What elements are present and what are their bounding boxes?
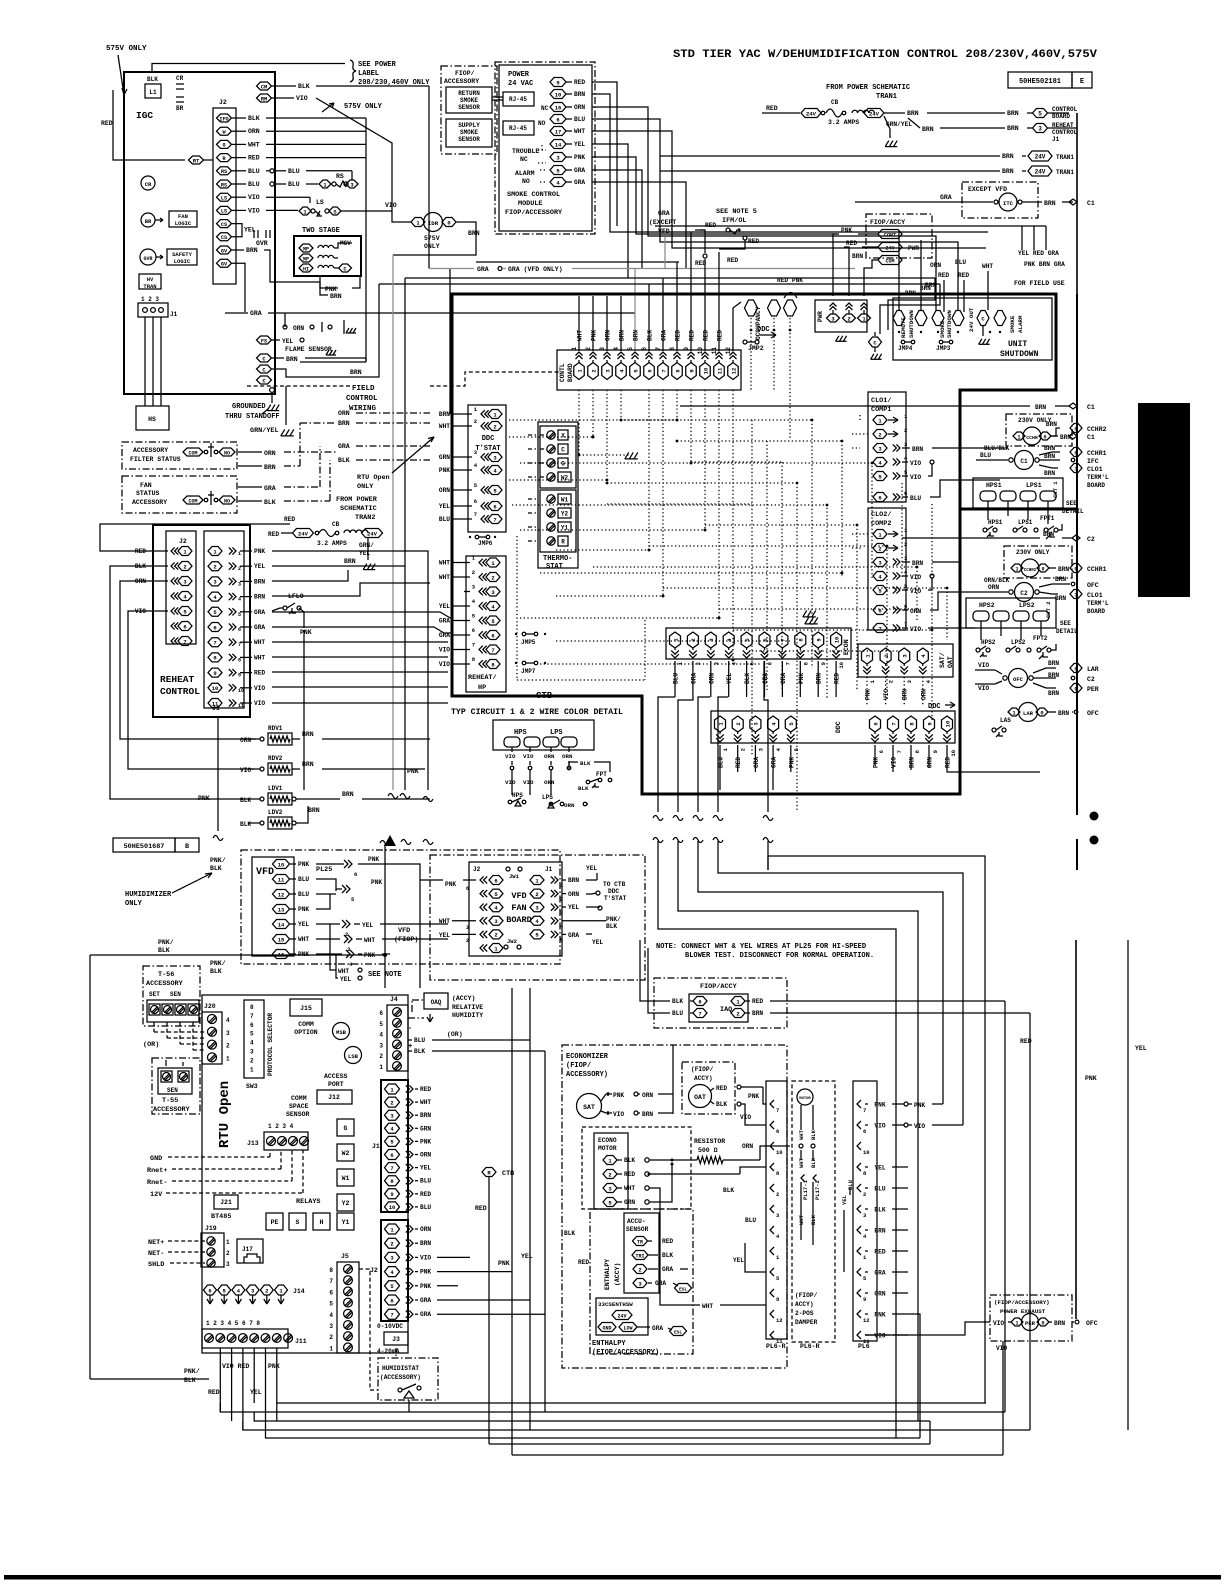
svg-text:ORN/BLK: ORN/BLK [984,577,1010,584]
VFD pin 10 [273,860,290,869]
svg-text:SMOKE: SMOKE [460,97,478,104]
svg-text:CKT 1: CKT 1 [1052,481,1059,498]
reheat J1 pin 3 [208,577,222,586]
svg-text:VIO: VIO [523,753,534,760]
connector PWR (PMR) box [815,300,867,332]
bundle wires into C pin [879,310,881,334]
svg-text:PNK: PNK [1085,1075,1097,1082]
svg-text:WHT: WHT [248,141,260,148]
svg-text:10: 10 [555,91,562,98]
long wire y=284 [379,283,940,285]
svg-text:FS: FS [261,338,267,344]
smoke shutdown pins [932,311,944,326]
svg-text:LPS: LPS [550,729,563,737]
svg-text:JMP3: JMP3 [936,345,951,352]
svg-text:BRN: BRN [912,446,923,453]
svg-text:(FIOP/: (FIOP/ [566,1062,591,1070]
svg-text:BRN: BRN [1054,1320,1065,1327]
CONTL BOARD pin 3 [602,363,613,380]
svg-text:FLAME SENSOR: FLAME SENSOR [285,346,332,353]
svg-text:VIO: VIO [914,1123,925,1130]
svg-text:IGC: IGC [136,110,153,121]
CONTL BOARD pin 7 [658,363,669,380]
svg-text:TRAN1: TRAN1 [1056,169,1074,176]
terminal L1 [145,84,161,98]
svg-text:GRN/: GRN/ [359,542,374,549]
svg-text:ORN: ORN [562,753,573,760]
svg-text:SENSOR: SENSOR [458,104,480,111]
svg-text:2: 2 [740,748,747,751]
svg-text:RED: RED [689,330,696,341]
svg-text:VFD: VFD [398,927,410,935]
svg-text:YEL: YEL [733,1257,744,1264]
DDC T'STAT pin 7 [488,515,502,524]
wires DDC right pins going right [892,765,894,772]
svg-text:VIO: VIO [910,474,921,481]
svg-text:CCHR: CCHR [1026,435,1038,441]
drawing number box 50HE502181 E [1008,72,1072,88]
svg-text:YEL: YEL [586,865,597,872]
svg-text:6: 6 [762,638,769,641]
svg-text:FAN: FAN [178,213,188,220]
svg-text:GRN/YEL: GRN/YEL [886,121,912,128]
svg-text:6: 6 [878,607,881,614]
svg-text:Rnet-: Rnet- [147,1179,167,1187]
svg-text:GVR: GVR [256,240,268,247]
reheat J1 pin 5 [208,607,222,616]
gray long field wire x393 [392,255,394,790]
VFD pin 12 [273,890,290,899]
wire RED into TRAN2 24V [281,532,292,534]
svg-text:BRN: BRN [907,110,919,117]
svg-text:BLU: BLU [420,1204,431,1211]
svg-text:6: 6 [390,1297,393,1304]
svg-text:ORN: ORN [338,410,350,417]
wire BLU with splice (RS pin 5) [232,170,246,172]
svg-text:CTB: CTB [536,691,553,701]
svg-text:VFD: VFD [511,891,526,901]
svg-text:7: 7 [698,1010,701,1017]
reheat J1 pin 6 [208,623,222,632]
wire GRN/YEL to ground [285,386,287,425]
svg-text:WHT: WHT [439,423,450,430]
relay output W2 [337,1144,354,1161]
svg-text:FOR FIELD USE: FOR FIELD USE [1014,280,1065,287]
svg-text:16: 16 [555,104,562,111]
REHEAT/HP pin 8 [486,660,500,669]
svg-text:VIO: VIO [891,757,898,768]
wires bottom right verticals joining [929,1421,931,1444]
long wire y=278 [405,277,935,279]
CONTL BOARD pin 9 [686,363,697,380]
PL25 chevrons 2 3 4 YEL WHT PNK [316,923,340,925]
svg-text:GRA: GRA [753,757,760,768]
svg-text:CM: CM [261,83,268,90]
svg-text:PNK: PNK [613,1092,624,1099]
svg-text:BOARD: BOARD [1052,113,1070,120]
svg-text:IFC: IFC [1087,458,1099,465]
black redaction rectangle right edge [1138,403,1190,597]
svg-text:LS: LS [221,196,227,202]
svg-text:RS: RS [221,182,227,188]
relay coil BR [141,213,155,227]
svg-text:TRAN: TRAN [143,283,156,290]
svg-text:PNK: PNK [368,856,379,863]
svg-text:BLK: BLK [578,785,589,792]
svg-text:VIO: VIO [420,1254,431,1261]
svg-text:GV: GV [221,262,228,268]
RTU Open board box [202,995,408,1353]
svg-text:HP: HP [478,684,486,692]
svg-text:NO: NO [224,450,230,456]
svg-text:J12: J12 [328,1094,340,1101]
svg-text:BLK: BLK [624,1157,635,1164]
svg-text:9: 9 [932,750,939,753]
svg-text:ORN: ORN [264,450,276,457]
svg-text:VFD: VFD [256,867,274,878]
svg-text:24 VAC: 24 VAC [508,80,533,88]
FAN LOGIC block [169,211,197,227]
CONTL BOARD pin 11 [714,363,725,380]
svg-text:9: 9 [213,670,216,677]
svg-text:J1: J1 [372,1143,380,1150]
svg-text:24V: 24V [869,110,880,117]
svg-text:8: 8 [669,347,676,351]
REHEAT CONTROL board box [153,525,250,717]
svg-text:J4: J4 [390,996,398,1003]
svg-text:11: 11 [716,367,723,374]
svg-text:RTU Open: RTU Open [357,474,390,482]
svg-text:GRA: GRA [420,1311,431,1318]
svg-text:FIOP/ACCY: FIOP/ACCY [870,219,905,226]
svg-text:BRN: BRN [439,411,450,418]
ECON pin 3 [705,632,716,648]
svg-text:OFC: OFC [1086,1320,1098,1327]
svg-text:RM: RM [261,95,268,102]
svg-text:BRN: BRN [752,1010,763,1017]
svg-text:WHT: WHT [702,1303,713,1310]
wire bus to C pins [300,361,366,363]
svg-text:10: 10 [697,347,704,355]
IAQ FIOP/ACCY dash-dot box [654,978,787,1028]
svg-text:2: 2 [904,541,907,548]
svg-text:ORN: ORN [248,128,260,135]
svg-text:12: 12 [725,347,732,355]
svg-text:CB: CB [831,99,839,106]
DDC T'STAT pin 1 [488,410,502,419]
svg-text:DDC: DDC [928,703,941,711]
svg-text:GRA: GRA [874,1270,885,1277]
svg-text:ORN: ORN [568,891,579,898]
wire BRN 24V TRAN1 (2) [660,170,1000,172]
svg-text:VIO: VIO [240,767,251,774]
svg-text:2: 2 [863,1191,866,1198]
wire BLU into C1 [976,459,1008,461]
svg-text:BLU: BLU [574,116,585,123]
svg-text:NO: NO [522,178,530,185]
thermostat terminal Y2 [547,509,555,517]
svg-text:DETAIL: DETAIL [1056,628,1078,635]
IAQ wires BLK BLU RED BRN [658,1000,670,1002]
svg-text:REHEAT: REHEAT [160,674,195,685]
svg-text:VIO: VIO [254,685,265,692]
long field wire x405 [404,278,406,790]
svg-text:BRN: BRN [568,877,579,884]
DDC T'STAT connector box [468,405,506,532]
svg-text:GRA: GRA [662,1266,673,1273]
relay coil CR [141,176,155,190]
svg-text:10: 10 [863,1149,870,1156]
svg-text:FROM POWER SCHEMATIC: FROM POWER SCHEMATIC [826,84,910,92]
svg-text:2: 2 [736,1010,739,1017]
svg-text:C1: C1 [1087,200,1095,207]
ECON pin 1 [670,632,681,648]
svg-text:(ACCY): (ACCY) [452,995,475,1002]
svg-text:MP: MP [303,256,309,262]
svg-text:2: 2 [904,427,907,434]
svg-text:SW3: SW3 [246,1083,258,1090]
svg-text:1: 1 [1017,434,1020,440]
break squiggles near triangle [401,840,411,845]
svg-text:HUMIDIMIZER: HUMIDIMIZER [125,891,172,899]
svg-text:TO CTB: TO CTB [603,881,626,888]
svg-text:BRN: BRN [302,731,314,738]
svg-text:2: 2 [735,722,742,725]
svg-text:FAN: FAN [140,482,152,489]
dotted mesh junction dots [620,419,623,422]
svg-text:6: 6 [878,750,885,753]
relay output Y1 [337,1213,354,1230]
RETURN SMOKE SENSOR box [446,87,492,113]
svg-text:BLOWER TEST. DISCONNECT FOR NO: BLOWER TEST. DISCONNECT FOR NORMAL OPERA… [685,952,874,960]
svg-text:24V: 24V [298,530,309,537]
svg-text:GRN: GRN [624,1199,635,1206]
wires BRN from CCHR to CCHR2/C1 [1051,428,1060,436]
FIOP/ACCY PWR accessory box [866,214,932,258]
svg-text:GRA (VFD ONLY): GRA (VFD ONLY) [508,266,563,273]
svg-text:WHT: WHT [798,1129,805,1140]
svg-text:BRN: BRN [1048,660,1059,667]
fan status switch COM NO [183,496,203,504]
wire VIO from RM / 575V ONLY [272,97,294,99]
svg-text:GRA: GRA [690,673,697,684]
svg-text:5: 5 [238,612,241,618]
terminal ESL 1 [675,1284,692,1293]
thermostat terminal Y1 [547,523,555,531]
ECON pin 9 [813,632,824,648]
svg-text:SEE: SEE [1066,500,1077,507]
svg-text:BRN: BRN [254,578,265,585]
REHEAT/HP pin 6 [486,631,500,640]
svg-text:RED: RED [752,998,763,1005]
thermostat terminal group 2 [540,490,576,552]
svg-text:9: 9 [820,662,827,665]
trouble/alarm switch symbols [538,145,546,163]
svg-text:WHT: WHT [574,128,585,135]
svg-text:ORN: ORN [420,1152,431,1159]
svg-text:2: 2 [265,1287,268,1294]
svg-text:8: 8 [329,1267,333,1274]
svg-text:RS: RS [221,169,227,175]
svg-text:GRN/YEL: GRN/YEL [250,427,279,435]
svg-text:WHT: WHT [338,968,349,975]
pin CM [257,82,272,90]
svg-text:0: 0 [1074,665,1077,672]
svg-text:6: 6 [208,1287,211,1294]
svg-text:ACCY): ACCY) [795,1301,814,1308]
svg-text:BRN: BRN [816,673,823,684]
svg-text:GRA: GRA [762,673,769,684]
svg-text:TRAN2: TRAN2 [355,514,375,522]
svg-text:OFC: OFC [1087,582,1099,589]
ground under PWR box [836,336,839,342]
svg-text:PNK: PNK [748,1093,759,1100]
svg-text:2: 2 [390,1241,393,1248]
svg-text:BLU: BLU [248,181,260,188]
svg-text:16: 16 [278,951,285,958]
svg-text:RED: RED [938,272,949,279]
svg-text:BRN: BRN [909,757,916,768]
wire YEL from pin 14 down [600,144,628,278]
OAT wires RED BLK [710,1088,714,1091]
svg-text:RED: RED [662,1238,673,1245]
svg-text:ECONO: ECONO [598,1137,617,1144]
svg-text:BLU: BLU [439,516,450,523]
svg-text:RED: RED [420,1086,431,1093]
dashed wires T-55 [165,1060,167,1066]
svg-text:LPS2: LPS2 [1019,602,1035,609]
VFD outer dash-dot box [241,850,560,964]
svg-text:C1: C1 [1087,404,1095,411]
svg-text:TERM'L: TERM'L [1087,600,1109,607]
heavy field wiring boundary polygon [452,294,1056,794]
svg-text:ORN: ORN [544,753,555,760]
svg-text:11: 11 [278,876,285,883]
svg-text:9: 9 [863,1296,866,1303]
svg-text:6: 6 [472,627,475,634]
svg-text:RED: RED [268,531,279,538]
svg-text:HUMIDITY: HUMIDITY [452,1012,483,1019]
svg-text:2: 2 [226,1043,230,1050]
svg-text:G: G [344,1125,348,1132]
svg-text:GRA: GRA [250,310,262,317]
DDC T'STAT pin 4 [488,466,502,475]
svg-text:13: 13 [278,906,285,913]
svg-text:LOW: LOW [623,1325,632,1331]
svg-text:10: 10 [950,750,957,757]
svg-text:YEL: YEL [359,550,370,557]
thermostat terminal W1 [547,495,555,503]
svg-text:CONTROL: CONTROL [160,686,200,697]
svg-text:BRN: BRN [1044,470,1055,477]
UNIT SHUTDOWN box [893,298,1052,360]
connector PL6-R (left) [766,1081,787,1339]
DDC T'STAT pin 5 [488,486,502,495]
svg-text:BLU: BLU [980,452,991,459]
svg-text:HPS2: HPS2 [979,602,995,609]
svg-text:9: 9 [926,722,933,725]
svg-text:RED: RED [574,79,585,86]
svg-text:575V ONLY: 575V ONLY [106,45,147,53]
CONTL BOARD pin 12 [728,363,739,380]
svg-text:7: 7 [238,642,241,648]
svg-text:3: 3 [560,910,563,916]
J2 wire WHT pin3 [452,920,476,922]
svg-text:YEL: YEL [726,673,733,684]
dash-dot wires GRA BLK [238,486,262,488]
svg-text:CCHR2: CCHR2 [1087,426,1107,433]
svg-text:14: 14 [278,921,285,928]
svg-text:4: 4 [379,1032,383,1039]
VFD pin wires PNK BLU BLU PNK YEL WHT PNK [290,863,296,865]
svg-text:PE: PE [271,1219,279,1226]
reheat J1 pin 9 [208,668,222,677]
svg-text:J21: J21 [220,1199,232,1206]
svg-text:SET: SET [149,991,160,998]
svg-text:X: X [561,433,565,440]
wire GV pin 12 [232,263,245,290]
svg-text:WHT: WHT [439,560,450,567]
IGC J2 pins IFO W G R RS RS LS LS CS CS GV GV [217,114,232,122]
svg-text:NET+: NET+ [148,1239,164,1247]
wires BRN from C1 to terminals [1039,452,1060,455]
svg-text:1 2 3 4: 1 2 3 4 [268,1123,294,1130]
svg-text:1: 1 [560,883,563,889]
wire J11 drops [219,1348,221,1412]
REHEAT/HP pin 2 [486,573,500,582]
svg-text:VIO: VIO [996,1345,1007,1352]
svg-text:4: 4 [226,1017,230,1024]
svg-text:ORN: ORN [642,1092,653,1099]
svg-text:YEL: YEL [439,932,450,939]
svg-text:VIO: VIO [910,626,921,633]
svg-text:GRA: GRA [420,1297,431,1304]
wires BLK ORN WHT RED from J2 to right bus [232,117,246,119]
svg-text:ORN: ORN [874,1291,885,1298]
svg-text:11: 11 [711,347,718,355]
svg-text:BLU: BLU [288,181,300,188]
IAQ connector box [689,994,748,1022]
svg-text:3: 3 [466,925,469,931]
svg-text:PNK: PNK [298,861,309,868]
wire GRA from IGC [225,312,248,314]
VFD drive box [252,857,294,956]
J4 wires BLU BLK [408,1039,412,1041]
CLO2 pin wires [902,561,910,563]
svg-text:SMOKE: SMOKE [939,320,946,338]
svg-text:1: 1 [226,1055,230,1062]
svg-text:YEL: YEL [282,338,293,345]
svg-text:7: 7 [390,1165,393,1172]
wire BRN to C1 node [680,405,1030,407]
svg-text:SENSOR: SENSOR [458,136,480,143]
svg-text:RTU Open: RTU Open [217,1081,233,1148]
svg-text:(OR): (OR) [447,1031,463,1038]
svg-text:THRU STANDOFF: THRU STANDOFF [225,413,280,421]
wire BRN pin10 to unit shutdown feeder [600,94,988,232]
jumper MSB [333,1023,350,1040]
wires WHT to REHEAT/HP [272,641,448,643]
SUPPLY SMOKE SENSOR box [446,119,492,147]
svg-text:LDV2: LDV2 [268,809,283,816]
svg-text:6: 6 [878,494,881,501]
svg-text:PNK: PNK [798,673,805,684]
svg-text:VIO: VIO [978,685,989,692]
svg-text:WHT: WHT [254,654,265,661]
svg-text:SEE NOTE 5: SEE NOTE 5 [716,208,757,216]
svg-text:VIO: VIO [439,647,450,654]
VFD pin 14 [273,920,290,929]
